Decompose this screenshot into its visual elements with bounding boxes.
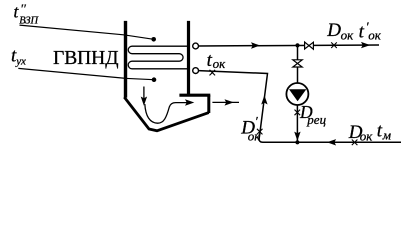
marker x t_ok <box>210 70 216 76</box>
label D_ok bottom <box>348 122 373 143</box>
heater left wall <box>124 21 127 98</box>
label D'_ok <box>240 114 261 144</box>
svg-text:ок: ок <box>213 56 227 71</box>
nozzle lower circle <box>193 68 199 74</box>
node junction dot recirculation tap <box>295 43 299 47</box>
outlet duct wall <box>207 95 210 113</box>
svg-text:ВЗП: ВЗП <box>19 15 39 26</box>
nozzle upper circle <box>193 43 199 49</box>
arrow gas flow to outlet <box>185 99 194 105</box>
wire pump discharge down <box>296 105 298 142</box>
label t''vzp (flue gas temp after air heater) <box>14 1 40 26</box>
arrow flow down into bottom line <box>294 132 300 141</box>
wire valve to pump <box>297 67 299 83</box>
arrow flow on main line <box>251 42 260 48</box>
valve V2 vertical on recirculation branch <box>293 60 302 67</box>
svg-text:ГВПНД: ГВПНД <box>53 48 119 69</box>
marker x D'_ok <box>257 129 263 135</box>
svg-text:ок: ок <box>360 128 374 143</box>
svg-text:ок: ок <box>368 28 382 43</box>
svg-text:ок: ок <box>341 28 355 43</box>
svg-text:ок: ок <box>248 129 261 144</box>
pump P1 circle <box>286 83 308 105</box>
arrow flow up riser <box>261 95 267 104</box>
node dot t''vzp measurement point <box>151 37 156 42</box>
svg-text:м: м <box>382 128 391 143</box>
coil serpentine <box>128 46 188 69</box>
pump P1 impeller triangle <box>289 89 306 101</box>
heater right wall <box>187 21 190 95</box>
wire main condensate line <box>199 45 379 46</box>
svg-text:t: t <box>359 21 365 42</box>
node junction dot pump discharge <box>295 140 299 144</box>
arrow flow from right on bottom line <box>327 139 336 145</box>
svg-text:′: ′ <box>255 114 258 129</box>
svg-text:рец: рец <box>306 112 326 127</box>
svg-text:′′: ′′ <box>20 1 26 16</box>
wire branch down from junction <box>297 45 299 59</box>
baffle ledge <box>179 94 210 97</box>
svg-text:ух: ух <box>15 55 26 67</box>
label t_uh (exit flue gas temp) <box>11 45 26 67</box>
wire leader from t''vzp to duct <box>20 25 154 39</box>
wire leader from t_uh to duct <box>18 68 154 79</box>
label t_ok mid <box>207 50 227 71</box>
marker x D_ok bottom <box>352 140 358 146</box>
marker x D_rec <box>295 110 301 116</box>
label t'_ok <box>359 19 382 43</box>
label D_ok top <box>326 20 354 42</box>
marker x D_ok top <box>331 42 337 48</box>
wire gas exit line <box>212 101 239 103</box>
valve V1 on main line <box>305 42 314 49</box>
hopper bottom <box>124 97 209 131</box>
wire curved gas duct in hopper <box>145 103 187 124</box>
label D_rec <box>299 102 327 127</box>
arrow flow to t'_ok <box>361 42 370 48</box>
node dot t_uh measurement point <box>152 77 157 82</box>
label t_m <box>377 121 391 143</box>
arrow gas exit <box>225 99 234 105</box>
wire bottom line with riser to lower nozzle <box>199 71 401 143</box>
arrow gas flow down inside heater <box>143 87 145 102</box>
svg-text:D: D <box>326 20 341 41</box>
